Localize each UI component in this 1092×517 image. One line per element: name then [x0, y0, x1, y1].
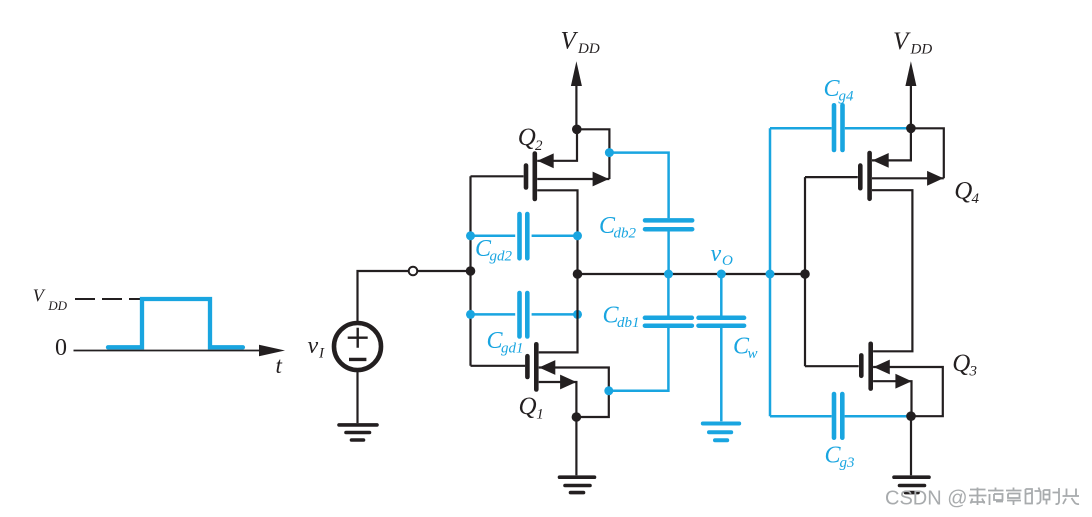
svg-text:3: 3	[969, 364, 978, 380]
Cdb2 label	[599, 213, 637, 242]
capacitor Cg3	[770, 394, 911, 438]
transistor Q2	[471, 154, 535, 200]
svg-text:CSDN @: CSDN @	[885, 488, 968, 510]
wire input terminal to gate bus	[417, 270, 470, 272]
wire vI source top to input terminal	[358, 271, 409, 321]
output line vO net	[578, 273, 806, 275]
node input junction dot	[466, 266, 476, 276]
node vO (blue dot)	[717, 270, 726, 279]
wire vI source bottom to ground	[356, 371, 358, 423]
ground (Cw, cyan)	[703, 424, 739, 441]
waveform dashed VDD level line	[75, 298, 142, 300]
wire Q1 drain to output node	[539, 274, 578, 352]
capacitor Cdb2	[609, 153, 692, 274]
Q4 label	[954, 177, 979, 207]
Cg4 label	[824, 76, 855, 105]
Cgd1 label	[487, 328, 524, 356]
svg-text:Q: Q	[954, 177, 972, 204]
cyan bus output to Cg4/Cg3	[769, 128, 772, 416]
Q2 source wire to VDD with arrow	[537, 129, 577, 168]
svg-text:w: w	[748, 346, 758, 362]
svg-text:I: I	[318, 346, 325, 362]
node cyan bus on output line (blue dot)	[766, 270, 775, 279]
node output junction dot (Q2/Q1 drains)	[573, 269, 583, 279]
source label vI	[308, 333, 326, 362]
svg-text:0: 0	[55, 335, 67, 361]
node VDD junction dot Q2	[572, 125, 582, 135]
ground (Q1 source)	[560, 477, 595, 492]
capacitor Cg4	[770, 105, 911, 150]
svg-text:O: O	[722, 253, 733, 269]
Cg3 label	[825, 443, 855, 472]
Cgd2 label	[475, 236, 513, 265]
VDD label (first inverter)	[561, 27, 600, 57]
svg-text:Q: Q	[519, 393, 537, 420]
svg-text:Q: Q	[952, 350, 970, 377]
svg-text:gd2: gd2	[490, 249, 513, 265]
vO node label	[711, 241, 734, 269]
node Cgd1 right (blue dot)	[573, 310, 582, 319]
node Q3 source junction dot	[906, 411, 916, 421]
watermark text	[885, 488, 1079, 510]
wire gate bus second inverter	[804, 177, 806, 366]
capacitor Cw	[699, 274, 745, 421]
transistor Q3	[805, 344, 871, 389]
waveform input pulse vI	[108, 299, 243, 347]
svg-text:db1: db1	[617, 315, 640, 331]
svg-text:V: V	[561, 27, 579, 54]
Q4 source wire to VDD with arrow	[872, 128, 911, 168]
wire VDD rail to Q4 body	[911, 128, 944, 178]
svg-text:V: V	[33, 286, 46, 306]
node Cgd2 right (blue dot)	[573, 231, 582, 240]
node Q2 body / Cdb2 junction (blue dot)	[605, 148, 614, 157]
wire Q2 drain to output node	[537, 190, 577, 274]
node Cgd1 left (blue dot)	[466, 310, 475, 319]
node second inverter input junction dot	[800, 269, 810, 279]
Q1 body wire with arrow	[539, 360, 609, 417]
node Cgd2 left (blue dot)	[466, 231, 475, 240]
svg-text:v: v	[308, 333, 319, 359]
svg-text:4: 4	[972, 191, 980, 207]
VDD label (second inverter)	[893, 28, 932, 58]
wire Q4 drain to Q3 drain	[872, 190, 912, 351]
svg-text:Q: Q	[518, 124, 536, 151]
ground (Q3 source)	[894, 477, 929, 492]
Q3 source wire with arrow	[873, 374, 912, 416]
waveform time axis	[74, 345, 286, 356]
Q3 body wire with arrow	[873, 360, 943, 417]
svg-text:g3: g3	[840, 455, 855, 471]
Q1 label	[519, 393, 544, 423]
Q1 source wire with arrow	[539, 375, 577, 417]
VDD supply arrow (second inverter)	[905, 61, 916, 128]
capacitor Cdb1	[609, 274, 692, 391]
svg-text:g4: g4	[839, 89, 855, 105]
node Cdb2/Cdb1 junction (blue dot)	[664, 270, 673, 279]
svg-text:db2: db2	[614, 225, 637, 241]
capacitor Cgd1	[471, 293, 578, 337]
svg-text:t: t	[276, 353, 283, 378]
Cdb1 label	[603, 303, 640, 332]
ground (vI source)	[339, 425, 377, 440]
svg-text:DD: DD	[47, 298, 67, 313]
wire Q3 source to ground	[910, 416, 912, 475]
transistor Q1	[471, 344, 537, 389]
wire VDD rail to Q2 body	[577, 129, 610, 179]
svg-text:DD: DD	[577, 41, 600, 57]
VDD supply arrow (first inverter)	[571, 61, 582, 129]
Q2 body wire with arrow	[537, 172, 609, 187]
svg-text:v: v	[711, 241, 722, 267]
svg-text:V: V	[893, 28, 911, 55]
waveform VDD level label	[33, 286, 68, 313]
Q4 body wire with arrow	[872, 171, 944, 186]
input terminal open circle	[409, 267, 418, 276]
node VDD junction dot Q4	[906, 124, 916, 134]
wire Q1 source to ground	[575, 417, 577, 475]
wire input gate bus vertical	[469, 176, 471, 365]
svg-text:1: 1	[536, 407, 544, 423]
node Q1 body / Cdb1 junction (blue dot)	[604, 386, 613, 395]
svg-text:DD: DD	[910, 41, 933, 57]
svg-text:2: 2	[535, 138, 543, 154]
Q3 label	[952, 350, 977, 380]
Q2 label	[518, 124, 543, 154]
svg-text:gd1: gd1	[501, 340, 524, 356]
Cw label	[733, 333, 758, 362]
transistor Q4	[805, 153, 870, 199]
voltage source vI	[334, 323, 381, 370]
capacitor Cgd2	[471, 214, 578, 258]
node Q1 source junction dot	[572, 412, 582, 422]
